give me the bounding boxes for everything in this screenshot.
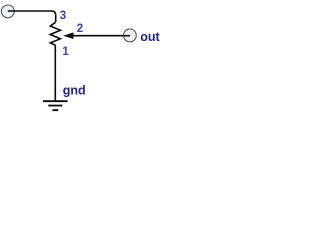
wire from wiper to out port [73,35,131,37]
svg-text:gnd: gnd [63,84,86,98]
wire stub into out port [124,35,131,37]
ground symbol [43,101,68,110]
potentiometer R1 body (zigzag) [50,22,60,45]
port out (right terminal circle) [123,29,136,42]
svg-text:3: 3 [60,10,66,22]
svg-text:1: 1 [62,46,69,58]
wiper arrow of potentiometer [63,32,73,39]
wire from pin 1 to ground [54,45,56,100]
svg-text:2: 2 [77,23,83,35]
svg-text:out: out [140,30,160,44]
wire from P1 to potentiometer pin 3 (rounded corner) [8,11,56,22]
port P1 (left input terminal circle) [1,5,14,18]
